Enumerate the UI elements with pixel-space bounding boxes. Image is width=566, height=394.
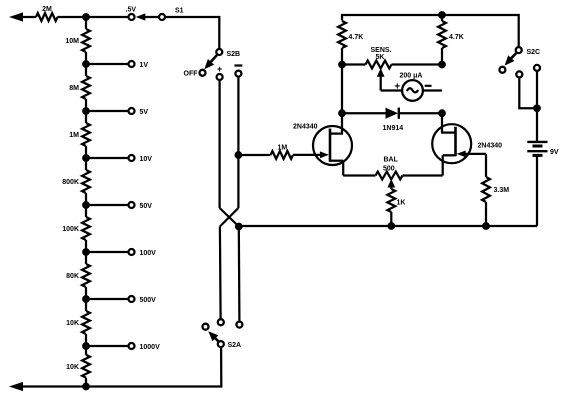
terminal 50V: [129, 202, 135, 208]
resistor 4.7K (left): [338, 21, 346, 48]
wire: S2C left contact to battery: [519, 78, 537, 108]
node: ladder junction 10V: [83, 155, 90, 162]
resistor 8M: [82, 76, 90, 99]
svg-text:5V: 5V: [140, 109, 149, 116]
wire: meter − to right rail: [423, 89, 442, 91]
wire: amplifier top rail: [342, 15, 519, 46]
resistor 1M (gate): [271, 151, 294, 159]
resistor 1K: [387, 189, 395, 212]
node: ladder top junction: [83, 14, 90, 21]
resistor 4.7K (right): [441, 15, 443, 21]
resistor 100K: [82, 217, 90, 240]
potentiometer SENS 5K: [366, 61, 392, 69]
label − (negative contact): [234, 64, 242, 66]
contact OFF (S2A): [203, 324, 209, 330]
svg-text:1M: 1M: [69, 132, 79, 139]
svg-text:10K: 10K: [66, 364, 79, 371]
wire: ladder segment above 800K: [85, 158, 87, 170]
svg-text:S1: S1: [175, 7, 184, 14]
node: battery top junction: [534, 105, 541, 112]
wire: + contact down to crossover: [218, 81, 220, 208]
wire: pot line right: [392, 63, 443, 65]
switch S2B wiper arrow: [209, 55, 218, 65]
svg-text:1000V: 1000V: [140, 344, 161, 351]
svg-text:1N914: 1N914: [383, 125, 404, 132]
wire: crossover down-left leg: [219, 227, 222, 319]
wire: bottom rail: [239, 225, 537, 227]
svg-text:50V: 50V: [140, 203, 153, 210]
svg-text:+: +: [394, 81, 400, 92]
svg-text:1K: 1K: [397, 200, 406, 207]
node: gate tap on − wire: [235, 152, 242, 159]
switch S2A wiper arrow: [212, 335, 218, 341]
svg-text:10M: 10M: [65, 38, 79, 45]
contact left (S2A, from −): [218, 319, 224, 325]
node: ladder junction 50V: [83, 202, 90, 209]
resistor 1M: [82, 123, 90, 146]
node: ladder junction 1V: [83, 61, 90, 68]
svg-text:8M: 8M: [69, 85, 79, 92]
svg-text:500V: 500V: [140, 297, 157, 304]
switch S1 wiper terminal: [159, 14, 165, 20]
wiper arrow (SENS pot): [377, 68, 385, 77]
wire: tap to 1V terminal: [86, 63, 128, 65]
resistor 10K: [82, 311, 90, 334]
wire: ladder segment above 10M: [85, 17, 87, 29]
svg-text:2M: 2M: [42, 6, 52, 13]
svg-text:1M: 1M: [278, 145, 288, 152]
wire: ladder segment above 10K: [85, 299, 87, 311]
node: pot line left junction: [339, 61, 346, 68]
wire: right rail 4.7K to pot line: [441, 48, 443, 65]
resistor 10K (bottom): [82, 355, 90, 378]
node: diode line left junction: [339, 110, 346, 117]
terminal .5V: [129, 14, 135, 20]
svg-text:OFF: OFF: [184, 71, 199, 78]
node: diode line right junction: [439, 110, 446, 117]
meter M1 200 uA: [402, 80, 423, 101]
terminal 10V: [129, 155, 135, 161]
terminal 500V: [129, 296, 135, 302]
wire: 1K to bottom rail: [390, 212, 392, 226]
wire: tap to 5V terminal: [86, 110, 128, 112]
wire: bottom lead: [22, 385, 86, 387]
terminal 1V: [129, 61, 135, 67]
contact right (S2C): [534, 65, 540, 71]
wire: tap to 10V terminal: [86, 157, 128, 159]
wire: crossover down-right leg: [238, 227, 241, 321]
resistor 800K: [82, 170, 90, 193]
wire: S2C right contact to battery: [536, 72, 538, 109]
wire: left rail pot to diode: [341, 65, 343, 114]
node: ladder junction 100V: [83, 249, 90, 256]
terminal 100V: [129, 249, 135, 255]
svg-text:+: +: [217, 64, 222, 74]
wiper arrow (BAL pot): [387, 179, 395, 188]
node: crossover junction to bottom rail: [235, 223, 242, 230]
wire: 1M to Q1 gate: [293, 154, 320, 156]
svg-text:.5V: .5V: [126, 7, 137, 14]
terminal 1000V: [129, 343, 135, 349]
node: 3.3M bottom junction: [483, 223, 490, 230]
wire: tap to 50V terminal: [86, 204, 128, 206]
transistor Q1 2N4340: [313, 126, 352, 165]
svg-text:80K: 80K: [66, 273, 79, 280]
wire: ladder segment above 100K: [85, 205, 87, 217]
wire: S1 to S2B: [166, 17, 219, 48]
svg-text:S2B: S2B: [227, 51, 241, 58]
wire: diode line right: [399, 112, 442, 114]
wire: Q2 gate lead: [466, 153, 487, 155]
switch S2B wiper terminal: [216, 49, 222, 55]
wire: wiper to meter +: [381, 89, 403, 91]
wire: 3.3M to bottom rail: [485, 202, 487, 226]
wire: left rail 4.7K to pot line: [341, 48, 343, 65]
svg-text:500: 500: [383, 166, 395, 173]
switch S1 wiper arrow: [136, 13, 146, 20]
svg-text:800K: 800K: [62, 179, 79, 186]
wire: pot line left: [342, 63, 366, 65]
svg-text:S2A: S2A: [228, 342, 242, 349]
node: ladder junction 1000V: [83, 343, 90, 350]
svg-text:1V: 1V: [140, 62, 149, 69]
svg-text:10V: 10V: [140, 156, 153, 163]
wire: battery top lead: [536, 108, 538, 141]
transistor Q2 2N4340: [432, 124, 471, 163]
svg-text:5K: 5K: [376, 54, 385, 61]
node: 1K bottom junction: [388, 223, 395, 230]
wire: Q1 source to BAL pot: [343, 174, 375, 176]
switch S2C wiper arrow: [510, 53, 517, 60]
wire: top input lead: [22, 16, 36, 18]
wire: tap to 100V terminal: [86, 251, 128, 253]
contact OFF (S2B): [200, 70, 206, 76]
contact right (S2A, from +): [236, 322, 242, 328]
terminal 5V: [129, 108, 135, 114]
wire: ladder segment above bottom 10K: [85, 346, 87, 355]
svg-text:3.3M: 3.3M: [494, 187, 510, 194]
svg-text:S2C: S2C: [527, 49, 541, 56]
wire: crossover right-to-left: [220, 208, 239, 227]
wire: ladder segment above 8M: [85, 64, 87, 76]
contact left (S2C): [516, 71, 522, 77]
switch S2A wiper terminal: [218, 341, 224, 347]
contact − (S2B): [235, 71, 241, 77]
label − (meter): [425, 85, 432, 87]
resistor 3.3M: [482, 177, 490, 202]
contact OFF (S2C): [499, 67, 505, 73]
wire: crossover left-to-right: [220, 208, 239, 227]
node: ladder bottom junction: [83, 383, 90, 390]
svg-text:4.7K: 4.7K: [449, 34, 464, 41]
node: ladder junction 500V: [83, 296, 90, 303]
wire: ladder segment above 80K: [85, 252, 87, 264]
svg-text:10K: 10K: [66, 320, 79, 327]
wire: − contact down to crossover: [237, 78, 239, 209]
resistor 10M: [82, 29, 90, 52]
svg-text:2N4340: 2N4340: [293, 123, 318, 130]
arrow: bottom-left probe lead: [9, 382, 23, 391]
node: ladder junction 5V: [83, 108, 90, 115]
resistor 80K: [82, 264, 90, 287]
wire: tap to 500V terminal: [86, 298, 128, 300]
svg-text:100V: 100V: [140, 250, 157, 257]
battery B1 9V: [527, 141, 547, 143]
contact + (S2B): [217, 74, 223, 80]
wire: tap to 1000V terminal: [86, 345, 128, 347]
resistor 2M: [36, 13, 58, 21]
wire: ladder segment above 1M: [85, 111, 87, 123]
wire: diode line left: [342, 112, 386, 114]
wire: battery bottom lead: [536, 157, 538, 227]
wire: gate wire to 1M: [238, 154, 270, 156]
diode 1N914: [386, 108, 399, 119]
arrow: top-left probe lead: [9, 12, 23, 21]
svg-text:2N4340: 2N4340: [478, 142, 503, 149]
wire: BAL pot to Q2 source: [403, 174, 443, 176]
wire: S2A wiper to bottom wire: [86, 348, 221, 387]
svg-text:200 μA: 200 μA: [400, 72, 423, 79]
svg-text:4.7K: 4.7K: [349, 34, 364, 41]
svg-text:9V: 9V: [550, 149, 559, 156]
switch S2C wiper terminal: [516, 47, 522, 53]
potentiometer BAL 500: [376, 172, 403, 180]
node: pot line right junction: [439, 61, 446, 68]
svg-text:100K: 100K: [62, 226, 79, 233]
node: top rail junction: [439, 12, 446, 19]
svg-text:BAL: BAL: [384, 156, 399, 163]
